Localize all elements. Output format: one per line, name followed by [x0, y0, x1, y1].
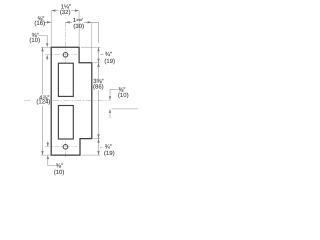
bottom hole centerline horizontal	[45, 146, 78, 148]
upper cutout (deadbolt opening)	[58, 63, 73, 96]
svg-text:¾”: ¾”	[105, 51, 112, 58]
svg-text:(10): (10)	[29, 37, 40, 44]
lower reference line for 3/8 right	[112, 108, 139, 110]
svg-text:(19): (19)	[104, 150, 115, 157]
extension line lip edge up (x=91.8)	[91, 23, 93, 62]
right dim line (x=98.5): 3/4 top, 3-3/8, 3/4 bottom	[98, 47, 100, 155]
extension bottom edge right (y=155.1)	[82, 154, 101, 156]
extension top edge left (y=47.2)	[41, 46, 50, 48]
top screw hole	[63, 53, 68, 58]
label 3/4 (19) bottom-right	[100, 146, 102, 148]
svg-text:(16): (16)	[34, 20, 45, 27]
arrow at 65.5 pointing left	[66, 21, 70, 23]
svg-text:(86): (86)	[93, 84, 104, 91]
svg-text:(124): (124)	[36, 99, 50, 106]
centerline horizontal (plate mid y=100.3)	[24, 99, 110, 101]
svg-text:(10): (10)	[118, 92, 129, 99]
centerline vertical bottom	[65, 142, 67, 158]
extension top edge right (y=47.2)	[81, 46, 101, 48]
bottom 3/8 (10) dim at x=47.8	[47, 141, 49, 143]
svg-text:⅜”: ⅜”	[56, 162, 63, 169]
arrow at 51.2 pointing right	[47, 21, 51, 23]
dim row 1.25in: line + arrows	[51, 10, 79, 12]
svg-text:(30): (30)	[73, 23, 84, 30]
svg-text:¾”: ¾”	[105, 144, 112, 151]
arrow at 91.8 pointing right	[88, 21, 92, 23]
svg-text:(32): (32)	[60, 9, 71, 16]
top hole centerline horizontal	[45, 54, 78, 56]
extension step2 right (y=138.6)	[93, 138, 100, 140]
centerline vertical top (hole/cutout CL x=65.5)	[65, 22, 67, 63]
right 3/8 (10) dim: down arrow to centerline, up arrow to lower ref	[109, 89, 111, 96]
extension line left edge up (x=51.2)	[50, 11, 52, 46]
extension line top-right corner up (x=79.1)	[78, 11, 80, 46]
dim row 5/8 + 1-3/16 shared (y=22.3)	[44, 21, 98, 23]
left 3/8 leader + arrows (x=47.2)	[38, 36, 47, 44]
extension bottom edge left (y=155.1)	[41, 154, 50, 156]
elbow down to right dim line	[98, 22, 100, 43]
dim 4-7/8 line (x=42.5)	[42, 47, 44, 155]
extension step1 right (y=62.8)	[93, 62, 100, 64]
svg-text:(10): (10)	[54, 169, 65, 176]
label 3/4 (19) top-right	[100, 53, 103, 55]
svg-text:(19): (19)	[104, 58, 115, 65]
strike plate outline	[51, 47, 92, 155]
bottom screw hole	[63, 145, 68, 150]
lower cutout (latch opening)	[58, 106, 73, 140]
